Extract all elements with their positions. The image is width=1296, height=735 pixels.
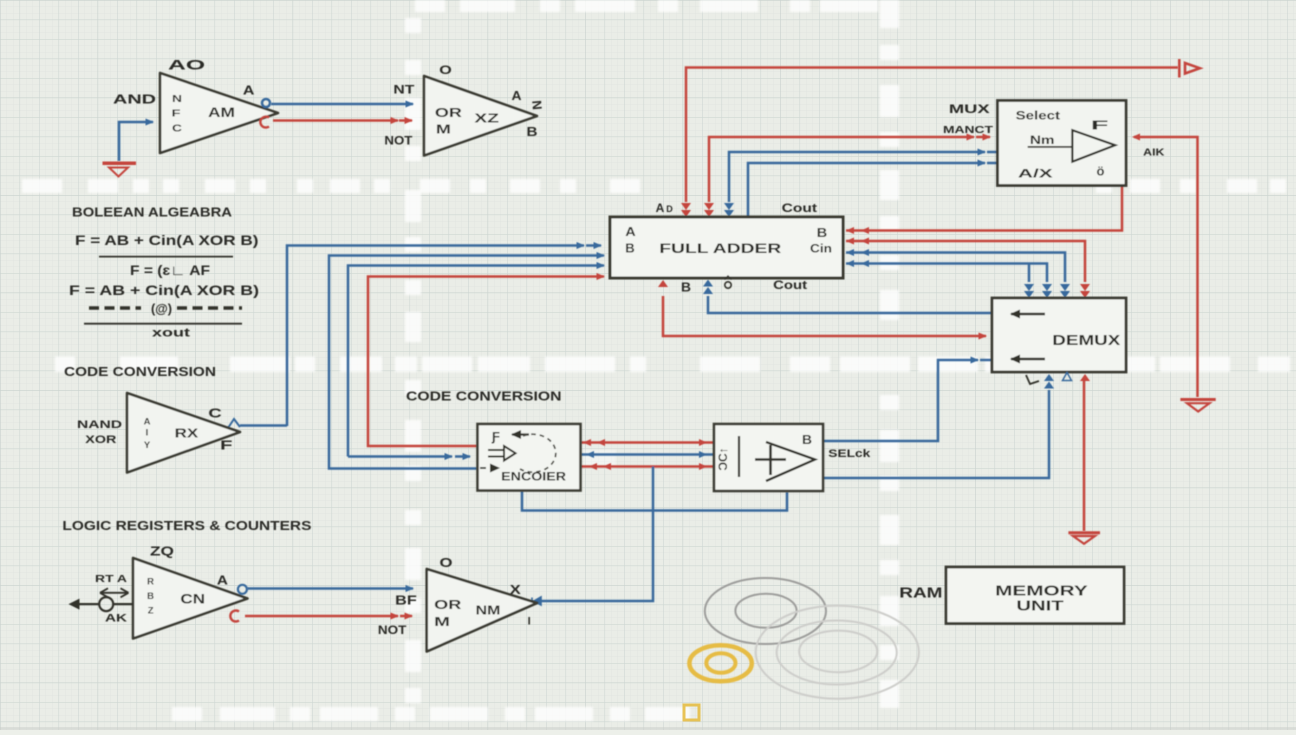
junction chevron W18 (red, up into DEMUX) [1080,374,1090,381]
svg-text:A: A [512,89,522,103]
inverter gate U2 (XZ) [424,76,537,156]
wire U1 input (blue with ground) [119,122,153,161]
svg-text:A/X: A/X [1018,167,1053,181]
svg-text:R: R [147,577,154,588]
arrow glyph 2 (U5) [1011,358,1045,360]
svg-text:MUX: MUX [949,102,990,116]
wire W3 FA top to MUX (blue) [729,152,998,202]
svg-text:F: F [220,438,232,453]
node o-hat (U4 bottom) [725,276,732,288]
svg-text:Select: Select [1016,111,1061,123]
wire W25 encoder bottom to comparator bottom (blue) [522,491,787,511]
junction chevrons W3 (blue, down) [724,203,734,217]
junction chevrons W7 (red, down into DEMUX) [1080,284,1090,298]
svg-text:O: O [440,556,453,570]
arrow glyph top (U6) [512,433,529,435]
dashed line with (o) [89,301,242,316]
svg-text:Y: Y [144,440,151,451]
svg-text:RAM: RAM [899,585,942,602]
wire W7 FA right to DEMUX top (red) [846,241,1085,282]
svg-text:F: F [1091,117,1109,132]
MUX block U3 [998,101,1127,186]
svg-text:XZ: XZ [474,112,499,126]
arrowheads W8 (blue, left) [846,249,869,256]
wire W1 FA top to termination (red) [686,68,1178,203]
svg-text:(@): (@) [151,301,172,316]
svg-text:ZQ: ZQ [150,543,174,558]
ground G3 (mid, red) [1068,533,1100,544]
svg-text:Cout: Cout [782,203,818,215]
glyph double arrow (U10) [100,588,129,597]
svg-text:AK: AK [105,612,127,624]
svg-text:F: F [172,109,181,120]
wire W18 DEMUX bottom to ground (red) [1083,381,1086,531]
FULL ADDER block U4 [610,217,843,278]
svg-text:ENCOIER: ENCOIER [501,471,567,483]
svg-text:M: M [434,614,450,629]
node C (U1 output red) [260,117,269,128]
wire W5 MUX right to ground (red) [1134,137,1198,397]
svg-text:NM: NM [476,603,501,618]
arrow glyph 1 (U5) [1011,313,1045,315]
wire W15 FA bottom to DEMUX left (blue) [708,296,992,313]
svg-text:BF: BF [395,594,417,608]
chevron glyph (U7) [766,442,815,481]
wire W10 RX output to FA left (blue) [240,246,601,427]
svg-text:Nm: Nm [1030,133,1055,147]
comparator block U7 [714,424,823,491]
ENCODER block U6 [478,424,581,491]
svg-text:Z: Z [148,606,154,617]
wire W4 FA top to MUX (blue) [748,163,998,217]
svg-text:N: N [529,100,545,111]
svg-text:BOLEEAN ALGEABRA: BOLEEAN ALGEABRA [72,204,233,219]
ground G1 (under U1, red) [103,163,137,176]
svg-text:F = (ɛ∟ AF: F = (ɛ∟ AF [130,262,210,278]
svg-text:ö: ö [1097,164,1105,179]
svg-text:F = AB + Cin(A XOR B): F = AB + Cin(A XOR B) [75,232,259,248]
svg-text:MEMORY: MEMORY [995,583,1088,600]
svg-text:OR: OR [435,106,462,120]
svg-text:I: I [146,428,149,439]
svg-text:LOGIC REGISTERS & COUNTERS: LOGIC REGISTERS & COUNTERS [62,518,311,533]
svg-text:Cout: Cout [773,280,807,292]
svg-text:FULL ADDER: FULL ADDER [659,240,781,256]
svg-text:O: O [439,63,452,77]
ground G2 (right, red) [1180,400,1215,412]
wire W13 encoder to FA left (red) [368,277,604,447]
svg-text:NAND: NAND [77,419,122,431]
dashed circle (U6) [520,434,556,472]
wire W20 comparator B to DEMUX left (blue) [823,360,992,441]
wire W24 NM output to W23 junction (blue) [538,467,653,602]
svg-text:CODE CONVERSION: CODE CONVERSION [64,365,216,379]
svg-text:UNIT: UNIT [1016,599,1063,615]
label angle (U5 bottom) [1026,375,1039,384]
svg-text:C: C [172,124,182,135]
wire W2 FA top to MUX (red MANCT) [709,137,990,202]
wire W17 comparator out to DEMUX bottom (blue) [823,390,1049,478]
node C (U10 output red) [230,611,239,622]
decorative circles yellow [689,645,751,681]
divider line [99,256,233,258]
decorative circles gray set 1 [705,578,826,644]
wire W11 encoder to FA left (blue) [329,256,604,469]
DEMUX block U5 [992,298,1126,372]
svg-text:B: B [625,242,635,256]
svg-text:B: B [681,280,691,294]
termination symbol (top right) [1179,59,1200,78]
arrowheads W23 [589,463,707,470]
svg-text:AIK: AIK [1143,148,1165,159]
svg-text:N: N [172,94,182,105]
wire W22 encoder to comparator (blue) [581,453,714,456]
wire W21 encoder to comparator (red) [581,441,714,444]
svg-text:RT A: RT A [95,573,128,585]
junction chevrons W2 (red, down) [704,203,714,217]
junction chevrons W9 (blue, down into DEMUX) [1024,284,1052,298]
svg-text:CODE CONVERSION: CODE CONVERSION [406,390,562,404]
svg-text:ƆC↑: ƆC↑ [716,447,730,470]
wire U1 to U2 red [273,119,412,122]
triangle buffer inside U3 [1072,130,1115,162]
svg-text:NOT: NOT [384,136,412,148]
node o (U1 output blue) [262,99,270,107]
svg-text:Cin: Cin [810,244,832,256]
junction chevrons W1 (red, down) [681,203,691,217]
clock input glyph (U10) [69,597,134,611]
divider line 2 [84,323,242,325]
svg-text:A: A [243,84,255,98]
wire W23 encoder to comparator (red) [581,465,714,468]
svg-text:CN: CN [180,592,205,607]
buffer gate U1 (AM) [160,73,278,153]
svg-text:A: A [144,416,151,427]
pin labels N F C (U1) [172,94,183,135]
svg-text:XOR: XOR [85,434,116,446]
svg-text:AO: AO [168,58,205,73]
label Nm underlined (U3) [1028,133,1072,147]
wire U10 to U11 blue [247,587,413,590]
small arrow glyph (U6) [480,467,499,469]
arrowheads W21 [583,439,707,446]
junction chevrons W8 (blue, down into DEMUX) [1060,284,1070,298]
svg-text:B: B [817,225,828,240]
svg-text:RX: RX [175,425,199,440]
svg-text:B: B [802,433,812,447]
svg-text:AND: AND [113,93,156,107]
arrowheads W22 [586,451,707,458]
svg-text:xout: xout [152,328,190,340]
svg-text:I: I [528,616,531,628]
wire W6 MUX bottom to FA right (red) [846,185,1122,231]
arrowheads W9 (blue, left) [846,260,869,267]
label OR M (U2) [435,106,462,137]
svg-text:OR: OR [434,598,461,612]
arrowheads W7 (red, left) [846,238,869,245]
wire W14 FA bottom to DEMUX left (red) [663,296,986,336]
svg-text:B: B [147,591,154,602]
svg-text:DEMUX: DEMUX [1052,332,1120,349]
svg-text:M: M [436,122,451,137]
buffer gate U9 (RX) [127,393,240,473]
glyph NM output tick (blue) [532,597,541,605]
svg-text:A: A [625,225,636,239]
junction chevrons W17 (blue, up into DEMUX) [1044,374,1054,389]
junction chevron W14 (red, up into FA) [658,280,668,287]
plus glyph (U7) [755,445,786,475]
arrowhead W5 (red, left) [1132,134,1140,141]
svg-text:F = AB + Cin(A XOR B): F = AB + Cin(A XOR B) [69,282,259,298]
decorative circles gray set 2 [756,606,919,699]
label NAND XOR (U9 input) [77,419,122,446]
label MEMORY UNIT [995,583,1088,615]
pin labels A I Y (U9) [144,416,151,451]
wire U10 to U11 red [245,615,412,618]
buffer gate U10 (CN) [133,558,248,639]
svg-text:AM: AM [208,105,235,120]
junction chevrons W15 (blue, up into FA) [703,280,713,295]
wire U1 to U2 blue [271,103,413,106]
svg-text:D: D [666,204,673,214]
svg-text:X: X [510,583,522,597]
svg-text:B: B [527,125,538,139]
divider line (U7) [738,436,740,477]
wire W9 FA right to DEMUX top (blue, tee) [846,264,1047,283]
svg-text:NT: NT [393,85,414,97]
double arrow glyph (U6) [488,446,516,461]
svg-text:Ƒ: Ƒ [491,429,500,444]
pin labels R B Z (U10) [147,577,154,617]
svg-text:NOT: NOT [378,625,407,637]
svg-text:MANCT: MANCT [943,125,993,136]
wire W8 FA right to DEMUX top (blue) [846,253,1065,283]
label Ad (U4 top) [656,201,674,215]
node o (U10 output blue) [238,585,247,594]
arrowheads W6 (red, left) [846,227,869,234]
wire W12 encoder to FA left (blue) [348,266,604,457]
svg-text:A: A [217,574,228,588]
svg-text:SELck: SELck [828,448,871,460]
caret RX output [228,419,240,428]
inverter gate U11 (NM) [427,569,537,652]
MEMORY UNIT block U8 [946,567,1124,624]
label OR M (U11) [434,598,461,629]
glyph small triangle (U5 bottom) [1063,373,1072,381]
svg-text:C: C [208,405,222,420]
svg-text:A: A [656,201,665,215]
